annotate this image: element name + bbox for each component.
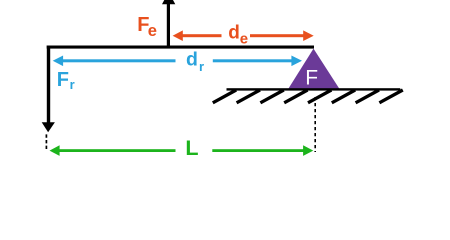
svg-text:d: d: [186, 49, 198, 71]
dashed extension line (right, below fulcrum): [314, 97, 316, 152]
dimension arrow L (green, double-headed): [58, 149, 176, 152]
lever beam: [47, 46, 314, 49]
dimension arrow dr (blue, double-headed): [62, 59, 176, 62]
svg-text:e: e: [240, 30, 248, 47]
ground line: [227, 88, 401, 90]
svg-text:L: L: [185, 136, 198, 160]
svg-text:r: r: [199, 59, 204, 74]
svg-text:F: F: [57, 69, 69, 91]
left vertical member of lever: [47, 46, 50, 124]
dashed extension line (left, below Fr arrow): [45, 134, 47, 150]
svg-text:r: r: [70, 77, 75, 92]
force arrow Fr (downward, left end): [42, 122, 55, 132]
ground hatching: [213, 90, 403, 103]
force arrow Fe (upward, at effort point): [167, 0, 170, 46]
fulcrum triangle F: [288, 49, 340, 90]
svg-text:F: F: [305, 66, 318, 89]
svg-text:e: e: [148, 22, 157, 40]
dimension arrow de (orange, double-headed): [181, 34, 222, 37]
svg-text:d: d: [228, 23, 240, 44]
